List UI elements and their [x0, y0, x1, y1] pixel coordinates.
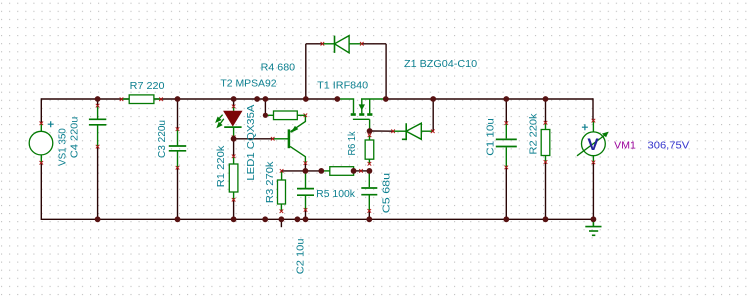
wire C4 bottom lead: [97, 147, 99, 220]
svg-text:C1 10u: C1 10u: [485, 118, 496, 156]
resistor R3 top lead: [281, 171, 283, 180]
junction top rail / C4: [95, 96, 101, 102]
capacitor C4: [89, 118, 106, 120]
pin T2 collector: [304, 161, 308, 165]
resistor R4: [274, 111, 298, 120]
pin R3 top: [280, 169, 284, 173]
svg-text:306,75V: 306,75V: [648, 140, 690, 151]
pin LED1 cathode: [232, 135, 236, 139]
transistor T2 (PNP MPSA92): [273, 115, 306, 163]
wire right vertical (rail corner to VM1): [592, 98, 594, 120]
svg-text:Z1 BZG04-C10: Z1 BZG04-C10: [404, 59, 478, 70]
pin T2 emitter: [304, 114, 308, 118]
junction bottom rail / C2: [303, 216, 309, 222]
pin C3 bottom: [176, 166, 180, 170]
pin C2 bottom: [304, 208, 308, 212]
resistor R6 bottom lead: [368, 159, 370, 164]
pin C5 bottom: [368, 209, 372, 213]
wire Z1 right: [432, 130, 434, 132]
capacitor C5 bottom lead green: [368, 195, 370, 211]
wire left vertical bottom (VS1 to bottom rail): [40, 163, 42, 220]
resistor R6: [365, 140, 374, 159]
pin R1 top: [232, 155, 236, 159]
capacitor C1 top lead green: [505, 123, 507, 138]
resistor R2 bottom lead: [545, 156, 547, 163]
resistor R3 bottom lead: [280, 204, 282, 211]
svg-text:VM1: VM1: [614, 140, 636, 151]
svg-text:C5 68u: C5 68u: [382, 173, 393, 213]
pin C3 top: [176, 127, 180, 131]
capacitor C5: [361, 187, 377, 189]
wire R4 left stub: [264, 99, 266, 115]
wire C5 bottom lead: [368, 211, 370, 219]
pin D1 cathode: [321, 42, 325, 46]
wire gate node to Z1: [370, 130, 394, 132]
svg-text:VS1 350: VS1 350: [58, 128, 69, 166]
junction bottom rail / R2: [543, 216, 549, 222]
svg-text:R2 220k: R2 220k: [528, 112, 539, 154]
junction top rail / R4 stub: [263, 96, 269, 102]
svg-text:T1 IRF840: T1 IRF840: [317, 80, 368, 91]
junction top rail / C3: [175, 96, 181, 102]
junction top rail / R2: [543, 96, 549, 102]
resistor R5: [330, 167, 354, 176]
pin Z1 cathode: [391, 129, 395, 133]
junction bottom rail segment a: [262, 216, 268, 222]
resistor R2: [541, 130, 550, 156]
capacitor C3 top lead green: [177, 129, 179, 145]
junction top rail / C1: [503, 96, 509, 102]
wire C3 top lead: [177, 99, 179, 129]
junction bottom rail / C4: [95, 216, 101, 222]
junction bottom rail / C1: [503, 216, 509, 222]
wire diode-loop top right: [362, 43, 386, 45]
capacitor C4 top lead green: [97, 106, 99, 119]
svg-text:C2 10u: C2 10u: [295, 238, 306, 274]
junction top rail / diode loop left: [303, 96, 309, 102]
wire T2 base: [234, 138, 273, 140]
wire R3 to collector node: [282, 170, 306, 172]
pin Z1 anode: [431, 129, 435, 133]
svg-text:R7 220: R7 220: [130, 81, 165, 92]
wire C3 bottom lead: [177, 168, 179, 220]
wire C1 top lead: [505, 99, 507, 123]
capacitor C4 bottom lead green: [97, 125, 99, 147]
svg-text:R6 1k: R6 1k: [347, 130, 358, 155]
wire LED1 to R1: [233, 137, 235, 156]
junction bottom rail / C3: [175, 216, 181, 222]
svg-text:R5 100k: R5 100k: [316, 189, 356, 200]
junction collector node / C2: [303, 168, 309, 174]
pin C4 top: [96, 104, 100, 108]
svg-text:R4 680: R4 680: [261, 62, 296, 73]
wire stub below rail at R3: [280, 219, 282, 227]
resistor R4 right lead: [297, 114, 305, 116]
pin VM1 top: [592, 119, 596, 123]
wire R2 bottom lead: [545, 162, 547, 219]
pin R3 bottom: [280, 209, 284, 213]
pin VS1 top: [40, 122, 44, 126]
diode D1 (top bypass): [322, 36, 361, 53]
junction R5 left pin: [318, 168, 324, 174]
pin R5 right wire mark: [359, 169, 363, 173]
wire Z1 to top rail: [432, 99, 434, 131]
wire top rail left segment: [41, 98, 337, 100]
capacitor C2 top lead green: [305, 171, 307, 188]
svg-text:V: V: [587, 135, 599, 154]
junction R5 right pin: [351, 168, 357, 174]
resistor R7: [129, 95, 154, 104]
pin VS1 bottom: [40, 161, 44, 165]
capacitor C1: [496, 138, 517, 140]
pin R5 left: [320, 169, 324, 173]
wire C4 top lead: [97, 99, 99, 106]
resistor R7 right lead: [154, 98, 161, 100]
resistor R6 top lead: [369, 135, 371, 140]
resistor R5 left lead: [321, 170, 330, 172]
wire diode-loop right vertical: [385, 44, 387, 99]
junction T1 gate node: [367, 128, 373, 134]
capacitor C1 bottom lead green: [505, 147, 507, 167]
voltage source VS1: [29, 121, 54, 163]
wire R1 to bottom rail: [233, 200, 235, 220]
pin C1 bottom: [505, 166, 509, 170]
pin LED1 anode: [232, 105, 236, 109]
pin VM1 bottom: [592, 161, 596, 165]
resistor R1 top lead: [233, 156, 235, 164]
junction bottom rail / R1: [231, 216, 237, 222]
wire diode-loop top left: [306, 43, 323, 45]
junction bottom rail / ground: [591, 216, 597, 222]
pin D1 anode: [360, 42, 364, 46]
wire C1 bottom lead: [505, 167, 507, 219]
junction top rail / Z1 branch: [430, 96, 436, 102]
pin T2 base: [271, 137, 275, 141]
resistor R4 left lead: [265, 114, 273, 116]
wire LED1 top lead: [233, 99, 235, 106]
junction top rail / T1 drain: [334, 96, 340, 102]
pin C4 bottom: [96, 145, 100, 149]
pin R6 bottom: [368, 162, 372, 166]
zener diode Z1: [393, 123, 433, 139]
wire top rail right segment: [386, 98, 593, 100]
voltmeter VM1: [577, 121, 609, 163]
junction R6 / R5 / C5 node: [367, 168, 373, 174]
pin R1 bottom: [232, 198, 236, 202]
svg-text:T2 MPSA92: T2 MPSA92: [220, 79, 277, 90]
resistor R2 top lead: [545, 123, 547, 130]
ground: [585, 219, 601, 235]
capacitor C2: [297, 188, 314, 190]
junction top rail / LED1: [231, 96, 237, 102]
LED1 emission arrows: [216, 115, 224, 127]
capacitor C3: [169, 145, 186, 147]
junction R4 left pin: [263, 113, 268, 118]
svg-text:C4 220u: C4 220u: [70, 117, 81, 159]
wire VM1 to bottom rail: [592, 162, 594, 219]
pin R2 bottom: [544, 160, 548, 164]
pin R7 left: [120, 97, 124, 101]
wire diode-loop left vertical: [305, 44, 307, 99]
wire bottom rail: [41, 218, 593, 220]
junction bottom rail segment b: [295, 216, 301, 222]
LED LED1: [224, 106, 242, 137]
wire left vertical top (to VS1): [40, 98, 42, 123]
junction top rail segment: [254, 96, 260, 102]
pin R6 top: [368, 133, 372, 137]
junction top rail / T1 source + loop right: [383, 96, 389, 102]
resistor R1 bottom lead: [233, 192, 235, 200]
junction bottom rail / C5: [366, 216, 372, 222]
wire C2 bottom lead: [305, 210, 307, 219]
wire node to R5 left pin: [305, 170, 321, 172]
resistor R7 left lead: [122, 98, 130, 100]
transistor T1 (MOSFET IRF840): [337, 99, 386, 131]
capacitor C2 bottom lead green: [305, 196, 307, 210]
svg-text:R1 220k: R1 220k: [216, 144, 227, 187]
wire T2 collector down: [304, 163, 306, 171]
pin R4 left: [264, 114, 268, 118]
pin R2 top: [544, 121, 548, 125]
svg-text:C3 220u: C3 220u: [157, 120, 168, 158]
resistor R3: [278, 180, 286, 204]
capacitor C3 bottom lead green: [177, 151, 179, 168]
wire R5 right pin to R6/C5 node: [354, 170, 370, 172]
pin C1 top: [505, 121, 509, 125]
junction bottom rail / R3: [279, 216, 285, 222]
resistor R1: [229, 164, 238, 192]
junction LED column / T2 base: [231, 136, 237, 142]
wire R2 top lead: [545, 99, 547, 123]
capacitor C5 top lead green: [368, 171, 370, 187]
pin R7 right: [159, 97, 163, 101]
svg-text:R3 270k: R3 270k: [265, 160, 276, 203]
svg-text:LED1 CQX35A: LED1 CQX35A: [246, 104, 257, 180]
